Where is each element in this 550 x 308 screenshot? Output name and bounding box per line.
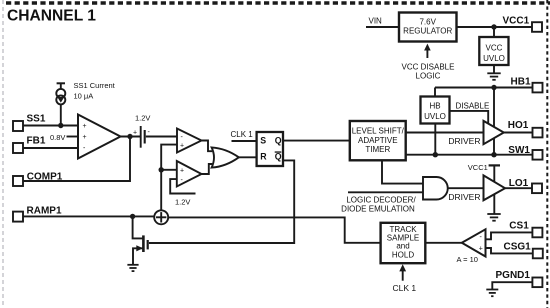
CS amp input marks — [479, 234, 483, 252]
wire comp1 output to OR — [202, 141, 213, 152]
wire 0.8V reference to error amp — [67, 136, 79, 138]
svg-text:DISABLE: DISABLE — [456, 101, 490, 110]
wire level shift to AND top — [382, 160, 423, 183]
wire summing node to track hold — [168, 217, 381, 242]
svg-text:R: R — [260, 152, 267, 162]
svg-text:1.2V: 1.2V — [175, 197, 190, 206]
svg-text:CSG1: CSG1 — [504, 242, 532, 253]
wire 1.2V reference comp2 — [170, 179, 195, 193]
CS amplifier U7 — [462, 229, 486, 256]
wire CLK 1 to latch S — [232, 140, 257, 142]
wire regulator to VCC1 — [457, 26, 533, 28]
wire comp2 output to OR — [202, 164, 213, 174]
wire HO1 — [504, 132, 533, 134]
svg-text:SW1: SW1 — [508, 145, 530, 156]
svg-text:CLK 1: CLK 1 — [231, 130, 254, 139]
junction dot comp2 input — [159, 167, 164, 172]
wire PGND1 — [492, 282, 532, 289]
pin SS1 — [13, 121, 23, 131]
svg-text:VCC1: VCC1 — [503, 16, 530, 27]
svg-text:UVLO: UVLO — [424, 112, 446, 121]
svg-text:PGND1: PGND1 — [496, 270, 531, 281]
HB UVLO text — [424, 102, 446, 122]
wire SW1 net — [406, 154, 533, 156]
comp1 input marks — [180, 134, 184, 149]
latch pin labels — [260, 135, 281, 161]
wire LO1 — [505, 187, 532, 189]
svg-text:+: + — [133, 130, 137, 137]
svg-text:HO1: HO1 — [508, 120, 529, 131]
pin LO1 — [532, 184, 542, 194]
wire CS1 — [486, 232, 533, 239]
junction dot SW1 right — [491, 152, 496, 157]
wire comp2 plus input — [161, 169, 177, 171]
svg-text:0.8V: 0.8V — [50, 133, 65, 142]
wire summing node to comparator inputs — [161, 145, 177, 211]
border left dashed — [2, 0, 4, 308]
track hold text — [387, 225, 419, 259]
HO driver U5 — [484, 121, 504, 144]
summing node — [154, 210, 168, 224]
pin HO1 — [533, 128, 543, 138]
wire FB1 — [23, 147, 78, 149]
svg-text:SS1 Current: SS1 Current — [74, 81, 116, 90]
svg-text:SS1: SS1 — [27, 113, 46, 124]
svg-text:RAMP1: RAMP1 — [27, 205, 62, 216]
HB UVLO box — [421, 97, 450, 124]
svg-text:HB1: HB1 — [511, 77, 531, 88]
regulator box 7.6V — [399, 13, 457, 42]
pin COMP1 — [13, 176, 23, 186]
pin PGND1 — [532, 278, 542, 288]
svg-text:LEVEL SHIFT/: LEVEL SHIFT/ — [352, 127, 405, 136]
svg-text:LOGIC DECODER/: LOGIC DECODER/ — [346, 195, 416, 204]
svg-text:CHANNEL 1: CHANNEL 1 — [7, 8, 96, 25]
svg-text:CLK 1: CLK 1 — [393, 283, 417, 293]
pin SW1 — [533, 150, 543, 160]
svg-text:+: + — [180, 168, 184, 175]
svg-text:DIODE EMULATION: DIODE EMULATION — [341, 205, 415, 214]
svg-text:CS1: CS1 — [509, 221, 529, 232]
svg-text:and: and — [396, 242, 409, 251]
svg-text:HOLD: HOLD — [392, 250, 414, 259]
wire RAMP1 — [23, 215, 155, 217]
wire latch Qbar to FET gate — [149, 160, 294, 243]
svg-text:10 μA: 10 μA — [74, 92, 94, 101]
wire VCC UVLO to ground — [493, 65, 495, 73]
wire track hold to CS amp — [425, 242, 462, 244]
svg-text:LO1: LO1 — [509, 178, 529, 189]
ground below VCC UVLO — [487, 73, 500, 80]
battery 1.2V offset — [141, 126, 145, 148]
svg-text:+: + — [180, 142, 184, 149]
wire HB to HO driver to SW — [493, 88, 495, 155]
regulator text — [403, 18, 452, 36]
ground PGND1 — [486, 290, 498, 297]
wire latch Q to level shift — [283, 140, 350, 142]
VCC UVLO box — [479, 37, 508, 65]
svg-text:DRIVER: DRIVER — [448, 192, 480, 202]
pin VCC1 — [532, 22, 542, 32]
wire COMP1 to error amp output — [23, 137, 130, 182]
OR gate G1 — [212, 147, 239, 167]
svg-text:LOGIC: LOGIC — [416, 72, 441, 81]
AND gate G2 — [423, 177, 448, 200]
LO driver U6 — [484, 175, 506, 200]
svg-text:7.6V: 7.6V — [419, 18, 436, 27]
border right dashed — [546, 0, 548, 308]
VCC1 supply bar for LO driver — [489, 165, 500, 213]
junction dot RAMP1 — [130, 214, 135, 219]
wire battery to PWM comparator — [146, 136, 177, 138]
svg-text:+: + — [479, 245, 483, 252]
pin RAMP1 — [13, 212, 23, 222]
pin CS1 — [532, 228, 542, 238]
svg-text:1.2V: 1.2V — [135, 114, 150, 123]
pin CSG1 — [533, 249, 543, 259]
wire VCC UVLO riser — [493, 27, 495, 37]
logic decoder text — [341, 195, 416, 213]
svg-text:TIMER: TIMER — [365, 145, 390, 154]
svg-text:UVLO: UVLO — [483, 54, 505, 63]
svg-text:Q: Q — [275, 152, 282, 162]
svg-text:FB1: FB1 — [27, 136, 46, 147]
VCC UVLO text — [483, 44, 505, 63]
border top dashed — [6, 1, 550, 5]
label VCC DISABLE LOGIC — [402, 62, 455, 80]
track sample hold box — [381, 223, 426, 263]
SR latch U4 — [257, 132, 283, 166]
current source I1 stem — [57, 83, 65, 125]
arrow CLK 1 into track hold — [399, 264, 406, 281]
svg-text:A = 10: A = 10 — [457, 255, 478, 264]
junction dot SW1 left — [433, 152, 438, 157]
error amp input marks — [83, 123, 87, 152]
wire HB1 — [435, 87, 533, 89]
comp2 input marks — [180, 168, 184, 184]
svg-text:VCC1: VCC1 — [468, 163, 488, 172]
battery plus minus marks — [133, 129, 151, 137]
level shift adaptive timer box — [350, 121, 406, 160]
svg-text:ADAPTIVE: ADAPTIVE — [358, 136, 398, 145]
comparator U3 — [177, 161, 202, 187]
junction dot HB1 — [491, 85, 496, 90]
pin HB1 — [533, 83, 543, 93]
ground below LO driver — [487, 214, 500, 221]
wire AND to LO driver — [448, 187, 484, 189]
level shift text — [352, 127, 405, 154]
wire error amp output to battery — [121, 136, 142, 138]
svg-text:+: + — [83, 134, 87, 141]
wire DISABLE — [450, 111, 489, 126]
ground below FET — [127, 265, 138, 271]
svg-text:COMP1: COMP1 — [27, 172, 63, 183]
wire logic decoder to AND bottom — [348, 191, 423, 193]
svg-text:VIN: VIN — [369, 16, 383, 25]
wire HB UVLO riser top — [434, 88, 436, 97]
error amp U1 — [78, 115, 121, 159]
svg-text:HB: HB — [429, 102, 440, 111]
wire CSG1 — [486, 248, 533, 253]
wire OR output to latch R — [239, 156, 257, 158]
wire VIN — [366, 26, 399, 28]
comparator U2 (PWM) — [177, 129, 202, 153]
svg-text:DRIVER: DRIVER — [448, 136, 480, 146]
svg-text:S: S — [260, 135, 266, 145]
arrow VCC disable logic — [424, 44, 431, 58]
svg-text:Q: Q — [275, 135, 282, 145]
pin FB1 — [13, 143, 23, 153]
svg-text:TRACK: TRACK — [389, 225, 417, 234]
svg-text:VCC DISABLE: VCC DISABLE — [402, 62, 455, 71]
MOSFET Q1 — [133, 216, 148, 264]
svg-text:VCC: VCC — [486, 44, 503, 53]
wire HB UVLO riser bottom — [434, 124, 436, 155]
wire level shift to HO driver — [406, 132, 484, 134]
latch Qbar overline — [275, 151, 282, 152]
junction dot SS1 — [58, 123, 63, 128]
wire SS1 — [23, 125, 78, 127]
junction dot VCC1 — [491, 24, 496, 29]
junction dot error amp output — [127, 134, 132, 139]
svg-text:+: + — [83, 123, 87, 130]
current source I1 circles — [56, 89, 65, 105]
svg-text:REGULATOR: REGULATOR — [403, 27, 452, 36]
